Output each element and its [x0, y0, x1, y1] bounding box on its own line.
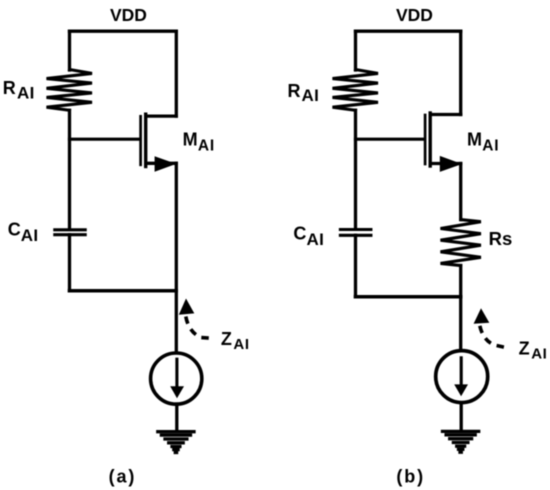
- svg-text:R: R: [3, 78, 16, 98]
- current source I1 arrow shaft (a): [175, 359, 178, 386]
- svg-text:AI: AI: [21, 226, 39, 245]
- capacitor CAI (b): [340, 230, 371, 236]
- resistor RAI (a): [47, 70, 93, 111]
- wire Rs to bottom rail (b): [459, 266, 462, 297]
- wire current source to ground (a): [175, 404, 178, 430]
- wire source to resistor Rs (b): [459, 164, 462, 220]
- label ZAI (a): [221, 329, 250, 353]
- svg-text:M: M: [467, 130, 482, 150]
- transistor MAI source stub (b): [430, 162, 461, 165]
- label RAI (b): [288, 81, 320, 105]
- transistor MAI channel bar (b): [429, 113, 432, 166]
- svg-text:M: M: [183, 130, 198, 150]
- current source I2 arrow shaft (b): [460, 358, 463, 385]
- transistor MAI gate bar (b): [424, 115, 427, 164]
- current source I2 arrowhead (b): [454, 384, 468, 396]
- impedance pointer arrowhead ZAI (b): [474, 308, 490, 324]
- svg-text:AI: AI: [307, 230, 325, 249]
- svg-text:Z: Z: [221, 329, 232, 349]
- wire bottom rail (b): [356, 295, 461, 299]
- wire node to current source (b): [459, 297, 462, 351]
- wire rail to drain (a): [175, 31, 178, 116]
- svg-text:Rs: Rs: [489, 228, 513, 249]
- impedance pointer arrowhead ZAI (a): [179, 299, 195, 315]
- label CAI (a): [8, 220, 39, 246]
- wire gate (a): [70, 138, 140, 141]
- impedance pointer dashed curve ZAI (b): [480, 326, 510, 349]
- transistor MAI channel bar (a): [144, 114, 147, 166]
- wire source to output node (a): [175, 163, 178, 290]
- wire current source to ground (b): [460, 403, 463, 430]
- svg-text:C: C: [8, 220, 21, 240]
- wire left branch top to rail (b): [354, 31, 357, 70]
- label RAI (a): [3, 78, 35, 102]
- svg-text:C: C: [293, 224, 306, 244]
- wire VDD top rail (b): [356, 30, 461, 33]
- transistor MAI drain stub (a): [146, 114, 177, 117]
- wire resistor to capacitor (b): [354, 110, 357, 228]
- transistor MAI source arrow (a): [155, 156, 177, 172]
- svg-text:AI: AI: [302, 86, 320, 105]
- impedance pointer dashed curve ZAI (a): [186, 317, 213, 339]
- wire resistor to capacitor (a): [68, 110, 71, 228]
- wire rail to drain (b): [459, 31, 462, 114]
- wire gate (b): [356, 138, 425, 141]
- label CAI (b): [293, 224, 324, 250]
- wire VDD top rail (a): [70, 30, 177, 33]
- svg-text:VDD: VDD: [110, 5, 147, 25]
- wire capacitor to bottom rail (b): [354, 235, 357, 296]
- transistor MAI gate bar (a): [139, 116, 142, 165]
- svg-text:VDD: VDD: [396, 5, 433, 25]
- wire left branch top to rail (a): [68, 31, 71, 70]
- svg-text:R: R: [288, 81, 301, 101]
- current source I1 arrowhead (a): [170, 386, 184, 398]
- svg-text:AI: AI: [482, 138, 499, 155]
- svg-text:(b): (b): [396, 467, 425, 487]
- wire bottom rail (a): [70, 289, 177, 293]
- wire node to current source (a): [175, 291, 178, 352]
- resistor RAI (b): [333, 70, 379, 111]
- ground symbol (b): [443, 431, 479, 452]
- svg-text:AI: AI: [198, 138, 215, 155]
- wire capacitor to bottom rail (a): [68, 235, 71, 291]
- current source I1 circle (a): [151, 353, 202, 404]
- transistor MAI source arrow (b): [440, 156, 462, 172]
- current source I2 circle (b): [436, 351, 488, 403]
- svg-text:(a): (a): [109, 467, 137, 487]
- transistor MAI source stub (a): [146, 162, 177, 165]
- svg-text:AI: AI: [531, 345, 547, 362]
- transistor MAI drain stub (b): [430, 113, 461, 116]
- svg-text:Z: Z: [519, 338, 530, 358]
- ground symbol (a): [158, 432, 194, 453]
- capacitor CAI (a): [55, 230, 85, 235]
- label ZAI (b): [519, 338, 548, 362]
- svg-text:AI: AI: [17, 83, 35, 102]
- label MAI (b): [467, 130, 499, 155]
- svg-text:AI: AI: [233, 336, 249, 353]
- label MAI (a): [183, 130, 215, 155]
- resistor Rs (b): [441, 220, 481, 266]
